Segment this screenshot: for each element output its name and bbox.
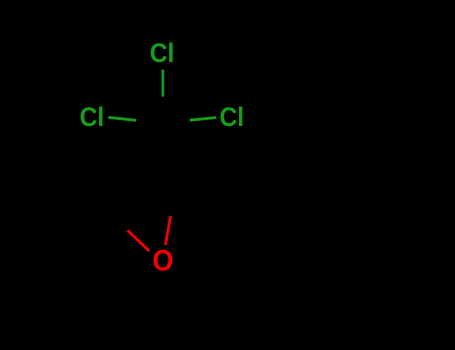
ring bond O-C2 red half — [165, 216, 170, 245]
bond Cl(top)-C1 green half — [162, 70, 165, 97]
wire: black half of ring bond C2-O — [171, 173, 179, 217]
wire: black half of bond C1-Cl right — [163, 120, 190, 123]
wire: black half of bond C1-Cl top — [162, 97, 165, 124]
wire: black half of bond C1-Cl left — [136, 120, 164, 123]
bond Cl(left)-C1 green half — [108, 117, 136, 120]
wire: black half of ring bond C3-O — [92, 201, 127, 231]
svg-text:O: O — [152, 244, 173, 277]
wire: ring bond C2-C3 (black) — [92, 173, 178, 201]
bond Cl(right)-C1 green half — [190, 118, 217, 121]
ring bond O-C3 red half — [128, 230, 150, 251]
svg-text:Cl: Cl — [220, 102, 245, 132]
wire: bond C2-phenyl ipso (black) — [178, 154, 252, 173]
svg-text:Cl: Cl — [150, 38, 175, 68]
wire: bond C1-C2 (black, invisible on bg) — [163, 123, 178, 173]
phenyl ring (black, invisible) — [250, 137, 341, 223]
svg-text:Cl: Cl — [80, 102, 105, 132]
